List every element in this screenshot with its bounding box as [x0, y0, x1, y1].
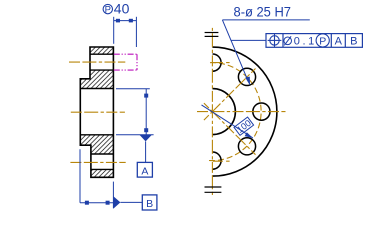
bolt circle dimension arrow: [245, 132, 253, 138]
dimension bore vertical line: [145, 89, 147, 135]
datum B triangle: [113, 196, 120, 208]
fcf attachment line: [231, 39, 266, 41]
fcf diameter symbol: [284, 36, 292, 45]
datum A box: [137, 162, 152, 177]
leader arrowhead: [245, 77, 250, 86]
dimension thickness line: [80, 202, 113, 204]
bolt circle dimension line: [202, 105, 253, 138]
centerline hole -90: [213, 160, 230, 162]
svg-text:B: B: [350, 36, 357, 48]
extension line face right upper: [116, 88, 150, 90]
bolt hole 1 bottom edge: [90, 69, 113, 71]
datum B leader: [120, 201, 142, 203]
hatch top rim band: [90, 47, 113, 54]
phantom mating part bottom: [114, 69, 137, 71]
bolt hole at 45: [238, 68, 255, 85]
centerline vertical main: [211, 28, 213, 197]
datum B box: [142, 195, 157, 210]
dimension P40 extension right: [135, 17, 137, 47]
step edge lower: [80, 144, 91, 146]
step edge upper: [80, 78, 90, 80]
central bore arc: [212, 89, 235, 135]
leader shoulder: [222, 19, 309, 21]
hatch upper web: [80, 70, 113, 88]
bolt hole 2 bottom edge: [91, 168, 114, 170]
bore top edge: [80, 88, 113, 90]
centerline bolt hole 1: [69, 61, 125, 63]
centerline horizontal main: [197, 111, 286, 113]
phantom mating part top: [114, 53, 137, 55]
bolt hole 1 top edge: [90, 53, 113, 55]
bore bottom edge: [80, 134, 113, 136]
centerline diagonal 45: [204, 69, 256, 121]
svg-text:0.1: 0.1: [294, 36, 314, 48]
dimension thickness terminator right: [106, 201, 110, 205]
dimension P40 extension left: [113, 17, 115, 44]
svg-text:A: A: [141, 165, 148, 177]
datum A stem: [145, 141, 147, 162]
dimension thickness terminator left: [85, 201, 89, 205]
fcf modifier circle P: [316, 34, 329, 47]
bolt hole at -90: [213, 152, 222, 169]
centerline end ticks bottom: [205, 187, 222, 192]
centerline end ticks top: [205, 33, 219, 37]
leader line: [222, 20, 248, 82]
svg-text:40: 40: [114, 1, 130, 17]
fcf frame: [266, 34, 362, 48]
svg-text:8-ø 25 H7: 8-ø 25 H7: [234, 5, 292, 20]
dimension bore terminator bottom: [144, 128, 148, 132]
centerline bolt hole 2: [70, 161, 125, 163]
svg-text:B: B: [146, 198, 153, 210]
dimension P40 terminator left: [116, 19, 120, 23]
hatch bottom rim band: [91, 169, 114, 177]
centerline hole 90: [213, 62, 230, 64]
bolt circle: [209, 63, 261, 161]
bolt hole at 0: [253, 103, 270, 120]
extension line bottom right: [112, 182, 114, 209]
extension line face right lower: [116, 134, 154, 136]
svg-text:A: A: [335, 36, 343, 48]
datum A triangle: [139, 135, 152, 142]
dimension P40 terminator right: [129, 19, 133, 23]
extension line bottom left: [79, 149, 81, 203]
centerline diagonal -45: [204, 103, 256, 155]
phantom mating part right: [136, 54, 138, 70]
dimension P40 line: [114, 20, 137, 22]
bolt hole at 90: [213, 54, 222, 71]
bolt hole at -45: [238, 138, 255, 155]
outer circle arc: [212, 47, 277, 176]
svg-text:P: P: [105, 5, 111, 16]
hatch lower web: [80, 135, 113, 154]
centerline main axis left view: [71, 111, 125, 113]
bolt circle dimension text box: [234, 117, 254, 135]
dimension bore terminator top: [144, 94, 148, 98]
svg-text:P: P: [319, 35, 326, 47]
fcf position symbol: [268, 34, 282, 48]
bolt hole 2 top edge: [91, 153, 114, 155]
left view outline: [80, 47, 113, 177]
pitch symbol circle P: [103, 4, 112, 13]
